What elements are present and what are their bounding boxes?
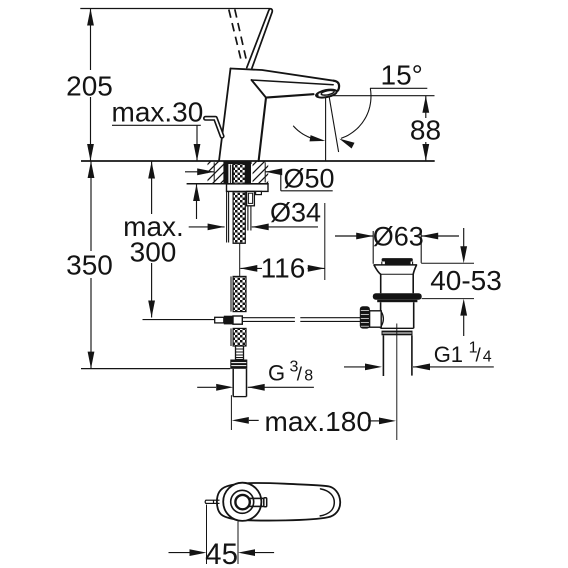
diameter 63 left extension line [372, 231, 374, 264]
svg-text:max.30: max.30 [112, 97, 204, 128]
diameter 63 right extension line [420, 231, 422, 263]
drain upper cylinder left [380, 274, 382, 293]
dia50 right arrowhead [265, 168, 282, 175]
mounting bracket inner [248, 193, 252, 203]
drain seat cone left side [374, 265, 381, 274]
shank left line 1 [226, 184, 228, 243]
faucet body left edge [219, 69, 231, 162]
svg-text:G: G [268, 360, 285, 385]
max.180 left extension line [230, 395, 232, 430]
body inner V line [252, 80, 266, 97]
drain tailpipe left (G1 1/4) [382, 335, 384, 376]
dia50 left dim line [185, 171, 214, 173]
lever handle dashed position left line [229, 10, 242, 64]
45 right dim line [255, 552, 274, 554]
lever top view inner right contour [320, 489, 334, 516]
drain lower body right [413, 302, 415, 328]
116 right extension line (stream axis) [324, 203, 326, 280]
dia50 right extension line [264, 162, 266, 182]
40-53 down arrowhead [460, 246, 467, 263]
drain seat top line [374, 264, 417, 266]
350 bottom reference line (hose end level) [81, 368, 230, 370]
hose left edge line lower [230, 328, 232, 346]
15 deg tilted stream line [329, 97, 338, 152]
drain lower body left [380, 302, 382, 328]
ball joint arc inside drain body [381, 312, 383, 327]
116 right arrowhead [308, 265, 325, 272]
15 deg reference line [370, 87, 427, 89]
max.30 drop line [196, 125, 198, 161]
G3/8 hose nut [230, 360, 247, 369]
svg-text:/: / [297, 365, 303, 386]
shank right dark bar in deck [245, 164, 251, 183]
drain flange lower band [377, 300, 417, 302]
svg-text:max.180: max.180 [265, 406, 372, 437]
pop-up rod knob (knurled) [360, 306, 370, 328]
350 top arrowhead [88, 161, 95, 178]
shank left line 2 [228, 184, 230, 243]
dia34 right dim line [252, 226, 318, 228]
max.180 left arrowhead [232, 417, 249, 424]
drain upper cylinder right [412, 274, 414, 293]
shank right line 2 [250, 191, 252, 230]
lever cap outer circle [223, 483, 261, 521]
svg-text:40-53: 40-53 [430, 265, 502, 296]
G1 1/4 left dim line [344, 366, 365, 368]
dia63 right arrowhead [421, 233, 438, 240]
116 dim line left segment [240, 267, 262, 269]
arc arrowhead pointing left at tilted line [339, 139, 354, 149]
svg-text:Ø63: Ø63 [373, 222, 424, 252]
drain flange (diameter 63) [373, 293, 422, 300]
lever cap inner bold circle [235, 495, 249, 509]
G3/8 left dim line [197, 386, 216, 388]
drain coupling ring [382, 331, 413, 336]
svg-text:88: 88 [410, 115, 441, 146]
drain seat cone right side [413, 265, 416, 274]
aerator outlet mouth [315, 88, 337, 99]
faucet body top / spout top edge [231, 69, 334, 81]
G1 1/4 right arrowhead [413, 364, 430, 371]
max.180 right stub line [368, 420, 379, 422]
rod connector small piece [215, 317, 224, 323]
svg-text:8: 8 [304, 367, 313, 384]
pop-up rod right upper line b [300, 317, 360, 319]
drain cone bottom faint line [381, 273, 414, 275]
dia34 right arrowhead [252, 224, 269, 231]
shank thin line in deck gap 1 [229, 165, 231, 184]
pop-up rod right lower line a [242, 320, 295, 322]
88 dim vertical line [425, 96, 427, 161]
drain plug cap lower band [385, 261, 411, 264]
svg-text:15°: 15° [381, 60, 423, 91]
max.300 top arrowhead [148, 162, 155, 179]
G3/8 connector tube [232, 369, 234, 397]
205 top arrowhead [87, 9, 94, 26]
dia63 right dim line [421, 235, 459, 237]
top reference line (lever max height) [80, 8, 270, 10]
45 right arrowhead [238, 549, 255, 556]
pop-up rod left section [143, 319, 215, 321]
dia50 leader drop [280, 172, 282, 191]
drain tailpipe right [411, 335, 413, 375]
116 dim line right segment [308, 267, 325, 269]
max.30 lower extension line [196, 184, 198, 219]
water stream vertical line [325, 98, 327, 161]
40-53 upper shaft [463, 228, 465, 247]
max.30 underline leader [112, 124, 201, 126]
pop-up rod right lower line b [300, 320, 360, 322]
max.30 lower arrowhead (up at deck underside) [193, 184, 200, 201]
lever handle (solid position) [247, 9, 273, 68]
40-53 up arrowhead [460, 299, 467, 316]
dia34 left arrowhead [208, 224, 225, 231]
lever pin left [206, 499, 220, 501]
drain plug cap top band [382, 258, 413, 261]
205 bottom arrowhead [87, 144, 94, 161]
supply hose upper checkered part [233, 276, 246, 311]
svg-text:300: 300 [130, 237, 177, 268]
350 bottom arrowhead [88, 352, 95, 369]
svg-text:Ø50: Ø50 [284, 163, 335, 193]
drain lower body bottom line [381, 327, 414, 329]
lever cap middle circle [231, 490, 254, 513]
max.300 dim line lower part [151, 263, 153, 318]
dia50 label underline [281, 190, 333, 192]
45 right extension line [237, 522, 239, 565]
svg-text:350: 350 [66, 250, 113, 281]
15 deg angle arc left segment [293, 126, 322, 141]
shank thin line in deck gap 2 [231, 165, 233, 184]
45 left extension line [206, 505, 208, 565]
dimension 350 vertical line [90, 161, 92, 369]
G1 1/4 left arrowhead (at tailpipe) [365, 364, 382, 371]
G1 1/4 leader line [413, 366, 494, 368]
nut highlight line 2 [231, 365, 246, 367]
side lever hook outer [206, 118, 223, 136]
45 left dim line [169, 552, 191, 554]
coupling ring highlight [383, 332, 412, 334]
shank right line 1 [247, 191, 249, 230]
supply hose lower checkered part [233, 328, 246, 346]
lever pin stub right [249, 497, 264, 499]
drain center line [396, 324, 398, 441]
45 left arrowhead [190, 549, 207, 556]
shank center line segment [239, 243, 241, 277]
countertop line [81, 160, 435, 162]
rod connector white square [233, 316, 242, 324]
max.180 right arrowhead [379, 418, 396, 425]
svg-text:116: 116 [261, 253, 306, 284]
base plate section band under counter [223, 161, 251, 164]
svg-text:G1: G1 [434, 342, 463, 367]
lever handle dashed position right line [235, 9, 247, 64]
dimension 205 vertical line [90, 9, 92, 162]
spout tip front face [334, 81, 340, 92]
G3/8 right arrowhead [248, 384, 265, 391]
88 bottom arrowhead [422, 144, 429, 161]
dia50 right dim line [265, 171, 281, 173]
max.300 dim line upper part [151, 162, 153, 215]
spout underside and body right edge [259, 94, 314, 161]
dia34 left dim line [189, 226, 225, 228]
rod joint housing [370, 311, 382, 327]
deck underside line [187, 183, 269, 185]
washer right step [256, 191, 262, 194]
max.30 upper arrowhead (down at counter) [194, 144, 201, 161]
max.300 bottom arrowhead [148, 301, 155, 318]
deck hatching left [180, 152, 268, 192]
dia63 left dim line [335, 235, 373, 237]
mounting bracket piece [247, 191, 255, 205]
deck hatching right [226, 152, 314, 192]
pop-up rod right upper line a [242, 317, 295, 319]
threaded shank (knurled) [233, 164, 245, 243]
lever top view outline [217, 483, 340, 521]
svg-text:45: 45 [205, 538, 238, 568]
svg-text:/: / [476, 346, 482, 367]
40-53 lower extension line (flange level) [422, 298, 474, 300]
side lever hook inner white [206, 118, 223, 136]
svg-text:205: 205 [66, 70, 113, 101]
116 left arrowhead [240, 265, 257, 272]
mounting washer [227, 184, 269, 192]
dia50 left extension line [213, 162, 215, 182]
40-53 lower shaft [463, 316, 465, 336]
drain cap right side line [412, 262, 414, 265]
spout inner top line [252, 80, 334, 85]
G3/8 leader line [248, 386, 314, 388]
svg-text:Ø34: Ø34 [270, 197, 321, 227]
drain cap left side line [381, 262, 383, 265]
15 deg angle arc right segment [341, 88, 371, 138]
outlet level reference line [332, 95, 435, 97]
40-53 upper extension line (cap top level) [421, 262, 474, 264]
braided hose section [236, 346, 244, 360]
arc arrowhead pointing right at stream line [310, 135, 326, 141]
G3/8 left arrowhead (at tube) [216, 384, 233, 391]
nut highlight line 1 [231, 362, 246, 364]
svg-text:4: 4 [483, 349, 492, 366]
hose left edge line upper [230, 276, 232, 311]
88 top arrowhead [422, 96, 429, 113]
rod connector dark block [224, 316, 233, 325]
dia50 left arrowhead [197, 168, 214, 175]
shank left dark bar in deck [223, 164, 228, 183]
max.180 left stub line [249, 419, 259, 421]
dia63 left arrowhead [356, 233, 373, 240]
